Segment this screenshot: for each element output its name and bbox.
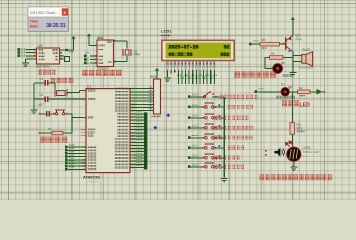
transistor Q2 PNP (283, 34, 301, 52)
svg-text:38 25 31: 38 25 31 (46, 23, 66, 29)
wire U3 pin CH1 (26, 55, 37, 57)
wire speaker to ground (292, 62, 294, 73)
ground below U3 left pins (22, 63, 29, 67)
power arrow U3 VCC (71, 36, 75, 50)
svg-text:R8: R8 (271, 52, 275, 56)
ground LDR (290, 167, 297, 171)
svg-text:00:55:56: 00:55:56 (168, 51, 193, 58)
power arrow right indicator (317, 89, 326, 95)
capacitor C3 (38, 103, 49, 116)
speaker BUZ1 (299, 48, 313, 70)
wire X2 top (114, 41, 128, 49)
caption crystal osc circuit (51, 77, 74, 83)
svg-text:X2: X2 (134, 49, 138, 53)
svg-text:R5: R5 (297, 123, 301, 127)
button row 7 with caption (188, 154, 240, 160)
net label U3 CS (18, 48, 27, 51)
capacitor C1 (39, 77, 47, 86)
svg-text:DS1302: DS1302 (97, 66, 109, 70)
svg-text:D1: D1 (281, 83, 285, 87)
wire P36 to D1 (258, 91, 281, 93)
resistor R8 (270, 52, 293, 60)
svg-text:C1: C1 (39, 77, 43, 81)
caption A/D conversion (39, 70, 56, 75)
ground button bus (221, 179, 228, 183)
svg-text:R1: R1 (48, 127, 52, 131)
wire P37 to R6 (252, 43, 260, 45)
button row 1 with caption (188, 91, 258, 99)
caption system time circuit (82, 70, 122, 76)
LCD pin names and wires (166, 61, 215, 84)
svg-text:92: 92 (224, 44, 231, 51)
wire crystal to XTAL1 (67, 91, 86, 93)
button row 4 with caption (188, 124, 253, 130)
net label U3 CH0 (18, 51, 27, 54)
chip U2 DS1302 (97, 37, 114, 71)
MCU right pin numbers (131, 88, 134, 169)
wire reset row (39, 113, 72, 115)
caption indicator LED (282, 100, 310, 108)
svg-text:BUZ1: BUZ1 (303, 48, 311, 52)
chip U3 ADC0832 (36, 44, 60, 68)
junction dot blue 1 (166, 113, 170, 117)
speaker icon annotation (265, 148, 284, 157)
LED D3 alarm (273, 62, 293, 77)
wire crystal gnd rail (33, 83, 35, 110)
svg-text:C3: C3 (38, 103, 42, 107)
svg-text:U1: U1 (87, 85, 91, 89)
svg-text:<TEXT>: <TEXT> (87, 179, 98, 183)
svg-text:LCD1: LCD1 (161, 29, 172, 34)
wire DS1302 IO (90, 59, 97, 61)
svg-text:2025-07-20: 2025-07-20 (168, 44, 199, 51)
wire R8 to LED D3 (265, 58, 273, 69)
button row 6 with caption (188, 144, 245, 150)
LCD1 label (161, 29, 172, 40)
wire R6 to Q2 base (280, 43, 286, 45)
wire D1 to R2 (290, 91, 298, 93)
wire R2 to power (310, 91, 318, 93)
wire C2 row to XTAL2 (34, 98, 86, 100)
wire DS1302 SCLK (90, 55, 97, 57)
wire U3 pin CS (26, 49, 37, 51)
net label VCC small (66, 49, 75, 53)
resistor R5 (290, 123, 305, 135)
wire DS1302 RST (90, 62, 97, 64)
push button reset (53, 110, 67, 115)
ground speaker (289, 73, 296, 77)
LCD pin net labels (177, 74, 217, 79)
caption sound light alarm (234, 71, 276, 78)
wire C1 row to crystal (34, 83, 55, 93)
button common bus (223, 97, 225, 178)
wire X2 bottom (114, 56, 128, 62)
popup blue clock digits (46, 23, 66, 29)
wire R2 node down to R5 (291, 92, 293, 123)
wires and net labels MCU P2 P3 (130, 111, 147, 169)
resistor R6 (260, 38, 280, 49)
wire R5 to LDR (291, 134, 293, 147)
svg-text:R6: R6 (262, 38, 266, 42)
crystal X1 (55, 89, 75, 98)
net label DS1302 RST (84, 62, 89, 65)
svg-text:LED: LED (300, 102, 311, 108)
svg-text:U3: U3 (38, 44, 42, 48)
capacitor C2 (39, 93, 47, 104)
svg-text:SOUNDER: SOUNDER (299, 66, 313, 70)
svg-text:992: 992 (220, 51, 230, 58)
pin marks U3 right (34, 49, 62, 60)
svg-text:RP1: RP1 (150, 75, 157, 79)
DS1302 clock popup window (28, 7, 69, 32)
svg-text:C2: C2 (39, 93, 43, 97)
MCU U1 AT89C52 (83, 85, 130, 184)
junction dot blue 2 (153, 126, 157, 130)
ground LCD VSS (164, 78, 171, 82)
resistor pack RP1 (150, 75, 161, 118)
net label DS1302 SCLK (84, 52, 90, 57)
net label P37 (249, 40, 259, 45)
wire LDR to ground (293, 161, 295, 166)
button row 2 with caption (188, 103, 253, 109)
crystal X2 32kHz (123, 49, 140, 56)
button row 3 with caption (188, 114, 248, 120)
wire U3 DO stub (60, 56, 65, 59)
button row 5 with caption (188, 134, 253, 140)
popup red time/date labels (30, 20, 40, 29)
svg-text:PNP: PNP (296, 38, 302, 42)
svg-text:DS1302 Clock ...: DS1302 Clock ... (30, 10, 60, 15)
LED D1 (276, 83, 295, 101)
ground crystal rail (30, 110, 37, 114)
pin marks DS1302 (95, 40, 116, 64)
wire U3 VCC to power (60, 49, 74, 51)
wire U3 pin GND (26, 59, 37, 63)
net label U3 CH1 (18, 54, 27, 57)
LCD text line2 (168, 51, 230, 58)
svg-text:R2: R2 (299, 86, 303, 90)
wire Q2 collector (293, 52, 302, 62)
svg-text:Date:: Date: (30, 24, 39, 28)
LCD text line1 (168, 44, 230, 51)
button row 8 with caption (188, 163, 244, 169)
wire reset to RST pin (72, 114, 86, 133)
caption reset circuit (41, 137, 68, 143)
power arrow DS1302 VCC1 (87, 34, 97, 46)
net label DS1302 IO (84, 58, 89, 61)
svg-text:ADC0832: ADC0832 (36, 64, 50, 68)
wires and net labels MCU P1 (65, 144, 86, 170)
svg-text:TORCH_LDR: TORCH_LDR (303, 150, 320, 154)
net flag U3 DO (65, 57, 70, 62)
svg-text:Time:: Time: (30, 20, 40, 24)
MCU left pin numbers (81, 90, 85, 171)
resistor R1 (39, 127, 72, 135)
resistor R2 (298, 86, 311, 97)
LCD LM016L body (162, 40, 234, 60)
LDR1 photoresistor (285, 141, 319, 161)
caption LDR detects ambient light (260, 174, 333, 180)
wires MCU P0 to RP1 (130, 86, 154, 111)
wire U3 pin CH0 (26, 52, 37, 54)
power arrow Q2 emitter (291, 17, 295, 36)
net label P36 (255, 88, 264, 93)
power arrow RP1 (155, 68, 159, 79)
